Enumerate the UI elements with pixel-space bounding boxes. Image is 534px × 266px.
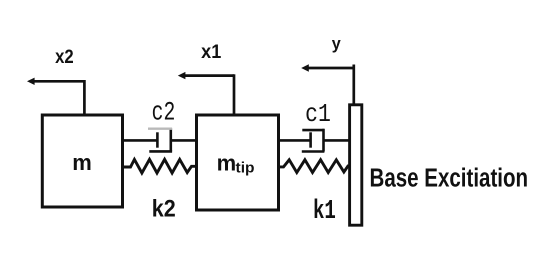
- spring k1: [279, 160, 350, 173]
- spring k2: [123, 159, 197, 173]
- piston plate: [156, 132, 159, 147]
- svg-text:c1: c1: [305, 100, 331, 129]
- cylinder bottom wall: [302, 150, 325, 153]
- svg-text:tip: tip: [236, 160, 255, 176]
- label m_tip: [217, 150, 255, 176]
- cylinder bottom wall: [149, 150, 172, 153]
- svg-text:Base Excitiation: Base Excitiation: [370, 163, 529, 192]
- svg-text:m: m: [217, 150, 237, 175]
- cylinder top wall: [302, 129, 324, 132]
- svg-text:c2: c2: [152, 98, 176, 129]
- cylinder top wall (faint): [148, 127, 172, 129]
- cylinder right wall: [170, 128, 173, 151]
- arrowhead y: [301, 64, 309, 71]
- cylinder right wall: [322, 129, 325, 152]
- wire: cylinder to base bar: [324, 139, 350, 142]
- wire: left box to piston: [123, 139, 157, 142]
- piston plate: [309, 132, 312, 147]
- arrowhead x2: [27, 78, 35, 85]
- svg-text:k2: k2: [152, 194, 176, 222]
- mass m box: [42, 115, 122, 207]
- svg-text:k1: k1: [313, 196, 336, 226]
- svg-text:y: y: [332, 33, 342, 52]
- damper c2: [123, 128, 197, 151]
- arrow x2: [31, 80, 84, 116]
- svg-text:m: m: [72, 150, 92, 175]
- base bar: [350, 105, 362, 225]
- arrow x1: [182, 74, 234, 116]
- arrowhead x1: [178, 72, 186, 79]
- svg-text:x1: x1: [201, 41, 221, 63]
- wire: cylinder to m_tip box: [171, 139, 197, 142]
- wire: m_tip box to piston: [279, 139, 311, 142]
- svg-text:x2: x2: [55, 46, 74, 67]
- damper c1: [279, 129, 350, 152]
- mass m_tip box: [197, 115, 279, 210]
- arrow y: [305, 65, 354, 110]
